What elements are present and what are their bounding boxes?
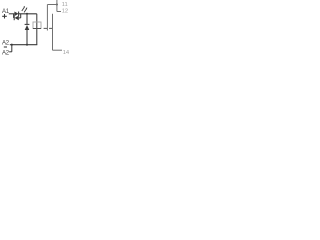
LED arrow 2 [24,9,26,13]
wire A1 to LED [9,13,15,15]
svg-text:A1: A1 [2,9,10,15]
main wire LED to corner [19,13,37,15]
freewheel branch wire bottom [26,30,28,45]
bottom wire A2 to coil [10,44,38,46]
branch tap left [13,14,15,18]
reverse diode D2 cathode bar [13,16,15,21]
A2 bridge junction dot [11,44,13,46]
freewheel diode D3 triangle [25,25,30,30]
branch wire to tap [19,17,21,19]
contact pivot drop wire [46,5,48,31]
wire dot to pivot [47,4,57,6]
A2 bridge stub [9,51,12,53]
freewheel diode D3 cathode bar [25,23,30,25]
reverse diode D2 triangle [15,16,19,21]
svg-text:11: 11 [62,2,68,8]
junction node dot bottom [26,44,28,46]
contact common riser wire [56,0,58,12]
wire through coil [36,14,38,45]
branch tap right [20,14,22,18]
LED D1 triangle [14,12,18,17]
relay coil K1 box [33,22,41,29]
lever terminal wire [53,49,63,51]
contact junction dot [56,4,58,6]
mechanical link dashed [44,27,53,29]
coil box bottom edge [33,28,41,30]
svg-text:14: 14 [63,50,70,56]
freewheel branch wire top [26,14,28,25]
contact fixed stub foot [57,11,61,13]
LED arrow 1 [22,7,24,11]
A2 bridge vertical wire [11,45,13,52]
svg-text:A2: A2 [2,50,10,56]
contact lever [52,14,54,51]
junction node dot [26,13,28,15]
svg-text:A2: A2 [2,40,10,46]
LED D1 cathode bar [18,12,20,17]
svg-text:12: 12 [62,8,68,14]
minus polarity mark [4,46,7,48]
plus polarity mark [2,14,7,19]
